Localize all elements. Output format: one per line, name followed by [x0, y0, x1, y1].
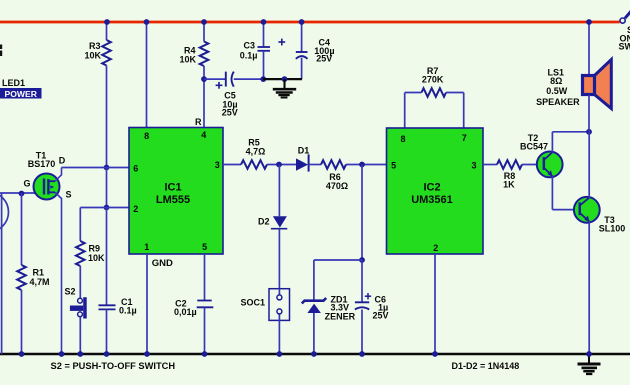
switch S1 ON/OFF — [620, 18, 625, 23]
wire: pin 7 IC2 up — [463, 93, 465, 128]
svg-text:10K: 10K — [88, 253, 105, 263]
wire: R4 to pin 4 — [203, 66, 205, 128]
svg-text:S2 = PUSH-TO-OFF SWITCH: S2 = PUSH-TO-OFF SWITCH — [51, 361, 176, 371]
wire: R5 to node C — [267, 164, 296, 166]
wire: SOC1 to ground rail — [278, 320, 280, 354]
svg-text:25V: 25V — [316, 54, 332, 64]
capacitor C3 — [258, 46, 271, 48]
transistor Q T2 BC547 — [537, 152, 563, 178]
wire: T1 drain to pin6 net — [55, 168, 62, 182]
node C3 bottom — [260, 76, 266, 82]
node A (pins 6 net) — [104, 165, 110, 171]
op-amp U2 IC2 UM3561 body — [387, 128, 484, 254]
wire: pin 2 of IC1 — [80, 207, 129, 209]
wire: node E to ZD1 — [314, 259, 362, 261]
svg-text:D1-D2 = 1N4148: D1-D2 = 1N4148 — [452, 361, 520, 371]
svg-text:GND: GND — [152, 258, 173, 269]
transistor T1 BS170 — [34, 174, 60, 200]
svg-text:25V: 25V — [222, 108, 238, 118]
wire: pin 8 IC2 up — [404, 93, 406, 128]
svg-text:0.1µ: 0.1µ — [119, 306, 137, 316]
svg-text:1K: 1K — [503, 179, 515, 189]
wire: black segment — [263, 78, 302, 80]
wire: rail to R4 — [203, 22, 205, 42]
wire: bridge right — [446, 92, 464, 94]
svg-text:5: 5 — [202, 242, 207, 252]
wire: node D down — [361, 165, 363, 261]
svg-text:4: 4 — [201, 130, 206, 140]
op-amp U1 IC1 LM555 body — [129, 128, 223, 255]
wire: C1 to ground rail — [106, 309, 108, 354]
wire: rail to speaker — [588, 22, 590, 76]
svg-text:4,7Ω: 4,7Ω — [246, 147, 266, 157]
LED power tag — [0, 88, 42, 99]
wire: +V supply rail (red) — [0, 21, 620, 24]
svg-text:10K: 10K — [179, 55, 196, 65]
svg-text:1: 1 — [144, 242, 149, 252]
svg-text:IC2: IC2 — [423, 182, 440, 194]
svg-text:SWITCH: SWITCH — [619, 42, 630, 52]
svg-text:BS170: BS170 — [28, 159, 56, 169]
wire: R3 to node A — [106, 66, 108, 168]
node R4/C5 — [201, 76, 207, 82]
resistor R9 — [76, 241, 85, 266]
cut-off label fragment — [0, 45, 2, 50]
wire: rail to R3 — [106, 22, 108, 40]
wire: gate of T1 from left edge — [0, 192, 44, 194]
wire: node A to node B — [106, 168, 108, 208]
wire: speaker to node F — [588, 95, 590, 132]
svg-text:C3: C3 — [243, 41, 255, 51]
svg-text:2: 2 — [133, 204, 138, 214]
junctions on +V rail — [104, 19, 110, 25]
svg-text:G: G — [23, 179, 30, 189]
svg-text:SOC1: SOC1 — [240, 298, 265, 308]
wire: pin 8 of IC1 to rail — [146, 22, 148, 128]
ground (top, near C4) — [283, 79, 285, 88]
svg-text:R1: R1 — [33, 268, 45, 278]
wire: pin 6 of IC1 — [62, 167, 130, 169]
svg-text:10K: 10K — [84, 50, 101, 60]
ground (bottom right) — [588, 355, 590, 363]
wire: R8 to T2 base — [522, 164, 543, 166]
wire: D2 to SOC1 — [278, 229, 280, 296]
wire: C3 to node — [263, 51, 265, 79]
wire: T1 source down to ground rail — [55, 192, 62, 354]
svg-text:7: 7 — [462, 133, 467, 143]
wire: T3 emitter to ground rail — [588, 222, 590, 355]
svg-text:UM3561: UM3561 — [411, 194, 453, 206]
svg-text:2: 2 — [433, 243, 438, 253]
svg-text:6: 6 — [133, 164, 138, 174]
svg-text:8: 8 — [144, 131, 149, 141]
wire: T2 emitter to T3 base — [552, 209, 574, 211]
node B (pin 2 net) — [104, 205, 110, 211]
wire: node E to C6 — [361, 260, 363, 302]
wire: left edge down to ground rail — [1, 193, 3, 354]
wire: pin 2 to ground rail — [434, 254, 436, 354]
svg-text:270K: 270K — [422, 75, 444, 85]
wire: rail to C3 — [263, 22, 265, 47]
wire: C4 to ground node (black) — [301, 58, 303, 79]
wire: collector to speaker net — [552, 131, 589, 133]
wire: pin 5 to C2 — [204, 254, 206, 301]
switch S2 push-to-off — [78, 298, 83, 303]
resistor R1 — [17, 265, 26, 290]
svg-text:S: S — [65, 190, 71, 200]
wire: R1 top — [21, 193, 23, 265]
junctions on ground rail — [19, 351, 25, 357]
svg-text:8: 8 — [400, 134, 405, 144]
capacitor C2 — [197, 300, 211, 302]
node C (D1 anode) — [276, 162, 282, 168]
wire: pin 3 to R5 — [223, 164, 241, 166]
svg-text:R: R — [195, 117, 202, 127]
wire: C5 to C3/C4 node — [234, 78, 263, 80]
svg-text:3: 3 — [215, 160, 220, 170]
svg-text:D1: D1 — [298, 145, 310, 155]
svg-text:LM555: LM555 — [156, 194, 190, 206]
node D (zener tap) — [359, 162, 365, 168]
svg-text:ZENER: ZENER — [325, 312, 356, 322]
touch plate — [0, 192, 9, 232]
svg-text:BC547: BC547 — [520, 142, 548, 152]
wire: R6 to IC2 pin 5 — [346, 164, 387, 166]
wire: node F to T3 collector — [588, 132, 590, 198]
node F (speaker net) — [586, 129, 592, 135]
svg-text:SL100: SL100 — [599, 224, 626, 234]
wire: R1 bottom — [21, 290, 23, 354]
svg-text:POWER: POWER — [5, 89, 38, 99]
svg-text:0.1µ: 0.1µ — [240, 51, 258, 61]
wire: ZD1 top — [313, 260, 315, 300]
svg-text:4,7M: 4,7M — [30, 277, 50, 287]
node G junction — [19, 191, 25, 197]
speaker LS1 — [595, 60, 612, 109]
wire: D1 to R6 — [309, 164, 321, 166]
svg-text:LED1: LED1 — [2, 78, 25, 88]
wire: pin 1 to ground rail — [146, 254, 148, 354]
wire: bridge left — [405, 92, 422, 94]
zener ZD1 — [302, 298, 326, 303]
svg-text:3: 3 — [471, 161, 476, 171]
wire: C2 to ground rail — [204, 307, 206, 354]
capacitor C4 (electrolytic) — [296, 51, 308, 53]
wire: rail to C4 — [301, 22, 303, 52]
capacitor C1 — [99, 304, 116, 306]
wire: S2 to ground rail — [79, 317, 81, 354]
svg-text:R9: R9 — [89, 244, 101, 254]
svg-text:SPEAKER: SPEAKER — [536, 97, 580, 107]
svg-text:8Ω: 8Ω — [550, 76, 562, 86]
wire: pin2 net down to R9 — [79, 208, 81, 242]
transistor Q T3 SL100 — [574, 197, 600, 223]
svg-text:D2: D2 — [258, 217, 270, 227]
diode D1 — [296, 158, 308, 170]
wire: T2 emitter down — [551, 176, 553, 210]
svg-text:IC1: IC1 — [164, 182, 181, 194]
svg-text:0.5W: 0.5W — [546, 86, 568, 96]
wire: T2 collector up — [551, 132, 553, 153]
capacitor C6 (electrolytic) — [355, 301, 369, 303]
svg-text:470Ω: 470Ω — [326, 181, 348, 191]
svg-text:0,01µ: 0,01µ — [174, 307, 197, 317]
svg-text:25V: 25V — [373, 311, 389, 321]
capacitor C5 (electrolytic) — [225, 72, 227, 87]
resistor R8 — [497, 160, 522, 169]
svg-text:S2: S2 — [65, 287, 76, 297]
wire: ground rail (black) — [0, 353, 630, 356]
socket SOC1 — [269, 289, 290, 321]
node ground stem — [282, 76, 288, 82]
wire: pin 3 IC2 to R8 — [483, 164, 497, 166]
resistor R5 — [241, 160, 267, 169]
svg-text:D: D — [59, 156, 66, 166]
wire: R9 to S2 — [79, 266, 81, 298]
resistor R7 — [422, 88, 447, 97]
wire: C6 to ground rail — [361, 310, 363, 355]
svg-text:5: 5 — [391, 161, 396, 171]
resistor R4 — [200, 42, 209, 67]
wire: node C down to D2 — [278, 165, 280, 217]
wire: ZD1 to ground rail — [313, 313, 315, 354]
node E (ZD1/C6) — [359, 257, 365, 263]
wire: node B down to C1 — [106, 208, 108, 306]
resistor R3 — [102, 40, 111, 66]
diode D2 — [273, 216, 287, 227]
resistor R6 — [321, 160, 346, 169]
wire: node to C5 — [204, 78, 226, 80]
